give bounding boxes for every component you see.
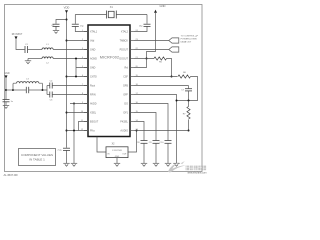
wire R5 to pin6 row — [167, 59, 172, 77]
wire pin4R row — [134, 58, 154, 60]
resistor R5 — [154, 57, 167, 64]
node RF INPUT — [12, 34, 23, 39]
svg-text:BSOUT: BSOUT — [90, 121, 99, 124]
ground (pin8 column) — [173, 163, 179, 166]
svg-text:CSF: CSF — [123, 76, 128, 79]
node R7 bottom — [188, 130, 190, 132]
capacitor C1 — [25, 44, 29, 53]
IC U1 right pin numbers — [136, 30, 139, 131]
flag text — [181, 35, 199, 43]
capacitor C7 — [181, 86, 192, 101]
svg-text:AI-4537-RF: AI-4537-RF — [4, 173, 19, 177]
svg-text:XTAL2: XTAL2 — [121, 31, 129, 34]
svg-text:CNTO: CNTO — [90, 76, 97, 79]
svg-text:RF INPUT: RF INPUT — [12, 34, 23, 36]
svg-text:Rout: Rout — [90, 85, 95, 88]
wire pin9 row — [70, 103, 88, 105]
svg-text:GND: GND — [4, 73, 9, 75]
capacitor C3 (tank) — [13, 87, 43, 93]
wire gnd rail left — [5, 78, 7, 99]
wire RF input to C1 — [16, 39, 25, 49]
svg-text:Vdd: Vdd — [90, 40, 95, 43]
capacitor C11 (left of X1) — [72, 15, 88, 32]
GND node (top right) — [147, 4, 166, 58]
node R5-pin6 — [171, 76, 173, 78]
wire FL1 gnd — [116, 158, 118, 164]
svg-text:www.elecfans.com: www.elecfans.com — [188, 173, 207, 175]
svg-text:Rsl: Rsl — [125, 67, 129, 70]
ground (C13) — [63, 163, 69, 166]
resistor R6 — [178, 72, 191, 78]
capacitor C5 — [47, 92, 88, 102]
svg-text:GND: GND — [90, 49, 96, 52]
wire tank to fork — [43, 86, 48, 95]
svg-text:DF1: DF1 — [123, 112, 128, 115]
svg-text:IN TABLE 1: IN TABLE 1 — [29, 158, 45, 162]
note box — [19, 149, 56, 166]
ground (C2) — [53, 31, 59, 34]
wire tank row — [6, 89, 13, 91]
IC U1 left pin numbers — [81, 30, 84, 131]
svg-text:F FILTER: F FILTER — [112, 150, 122, 152]
wire pin5 jog — [76, 59, 88, 77]
wire FL1 out — [128, 131, 137, 153]
capacitor C4 — [47, 80, 88, 88]
wire FL1 in — [97, 137, 106, 152]
svg-text:RFIN: RFIN — [90, 94, 96, 97]
node VDD-pin12 — [66, 130, 68, 132]
wire VDD to pin10 — [67, 112, 89, 114]
svg-text:PDOUT: PDOUT — [120, 49, 129, 52]
svg-text:MICRF002: MICRF002 — [100, 56, 119, 60]
capacitor C8 — [137, 141, 148, 164]
node tank right — [42, 89, 44, 91]
wire pin6R row — [134, 76, 178, 78]
svg-text:TMBCK: TMBCK — [120, 40, 129, 43]
IC U1 pins right — [130, 32, 134, 131]
ground (C6) — [3, 106, 9, 109]
svg-text:PKSEL: PKSEL — [120, 121, 128, 124]
capacitor C13 (VDD rail bottom) — [57, 148, 70, 163]
watermark logo — [168, 161, 207, 174]
capacitor C6 (gnd rail) — [3, 100, 14, 106]
wire pin12 row left — [67, 130, 89, 132]
svg-text:VDD: VDD — [64, 6, 70, 10]
svg-text:2.2µ: 2.2µ — [57, 150, 62, 152]
node VDD-C2 tee — [66, 19, 68, 21]
filter FL1 — [106, 144, 128, 158]
wire VDD rail — [66, 13, 68, 148]
svg-text:AVDD: AVDD — [90, 103, 97, 106]
node VDD-pin6 — [66, 76, 68, 78]
svg-text:OFF: OFF — [123, 94, 128, 97]
inductor L2 — [42, 57, 53, 65]
VDD node — [64, 6, 70, 14]
ground (C10) — [165, 163, 171, 166]
node VDD-pin10 — [66, 112, 68, 114]
capacitor C9 — [149, 141, 160, 164]
crystal X1 — [75, 6, 147, 18]
node pin9 tee — [73, 103, 75, 105]
node C7 bottom — [188, 100, 190, 102]
wire pin11R to C8 — [134, 122, 144, 141]
capacitor C12 (right of X1) — [134, 15, 151, 32]
wire pin3R to flag2 — [134, 49, 169, 51]
capacitor C10 — [159, 141, 171, 164]
node VDD-pin2 — [66, 40, 68, 42]
wire VDD to pin2 — [67, 40, 89, 42]
wire L2 to pin4 — [53, 58, 88, 60]
capacitor C2 — [53, 24, 60, 30]
svg-text:AGND: AGND — [90, 58, 97, 61]
wire VDD to pin6 — [67, 76, 89, 78]
IC U1 left pin names — [90, 31, 99, 133]
node jog top — [75, 58, 77, 60]
wire L1 to pin3 — [53, 49, 88, 51]
wire pin9R to C10 — [134, 104, 168, 141]
IC U1 — [88, 25, 130, 137]
svg-text:COMPONENT VALUES: COMPONENT VALUES — [21, 153, 53, 157]
wire to C2 — [56, 20, 67, 24]
svg-text:XTAL1: XTAL1 — [90, 31, 98, 34]
ground (FL1) — [114, 163, 120, 166]
svg-text:POWER-DOWN: POWER-DOWN — [181, 39, 197, 41]
svg-text:DFB: DFB — [123, 85, 128, 88]
svg-text:TO CONTROL µP: TO CONTROL µP — [181, 35, 199, 37]
svg-text:GND: GND — [160, 4, 166, 8]
svg-text:DATA OUT: DATA OUT — [181, 41, 192, 44]
svg-text:AUDIO: AUDIO — [120, 130, 128, 133]
IC U1 right pin names — [119, 31, 128, 133]
wire pin4-pin5 jog right — [134, 59, 147, 68]
IC U1 pins left — [84, 32, 88, 131]
ground (C8) — [141, 163, 147, 166]
ground (C9) — [153, 163, 159, 166]
ground (L2) — [27, 59, 29, 61]
node pin4R junction — [146, 58, 148, 60]
wire pin7R row — [134, 85, 189, 87]
svg-text:XSEL: XSEL — [90, 112, 97, 115]
inductor L3 (tank) — [13, 79, 43, 90]
resistor R7 — [183, 101, 190, 131]
inductor L1 — [42, 44, 53, 49]
wire pin10R to C9 — [134, 113, 156, 141]
wire gnd to L2 — [28, 58, 42, 60]
node GND (left tank) — [4, 73, 9, 78]
ground (column B) — [71, 163, 77, 166]
node flag2 (data out) — [169, 47, 179, 52]
node tank left — [12, 89, 14, 91]
svg-text:PKa: PKa — [90, 130, 95, 133]
wire pin8R to gnd column — [134, 95, 177, 164]
wire pin2R to flag1 — [134, 40, 169, 42]
node FL1 out tee — [136, 130, 138, 132]
node jog bottom — [75, 76, 77, 78]
node colB pin12 — [73, 130, 75, 132]
svg-text:GND: GND — [90, 67, 96, 70]
svg-text:DOOUT: DOOUT — [119, 58, 128, 61]
wire column B down — [73, 104, 75, 164]
wire R6 to corner — [177, 77, 198, 101]
svg-text:DO: DO — [124, 103, 128, 106]
wire pin11 jog — [79, 122, 89, 131]
node pin8 col cross — [176, 100, 178, 102]
wire pin12R row — [134, 130, 189, 132]
node tank gnd tee — [5, 89, 7, 91]
node flag1 (to control uP) — [169, 38, 179, 43]
wire C1 to L1 — [28, 49, 42, 51]
